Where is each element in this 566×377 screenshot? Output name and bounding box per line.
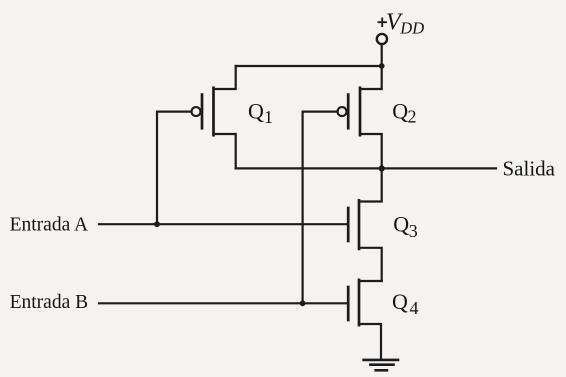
- svg-text:DD: DD: [399, 19, 424, 38]
- svg-text:Salida: Salida: [503, 156, 556, 180]
- svg-text:4: 4: [410, 298, 419, 318]
- svg-text:Entrada B: Entrada B: [10, 292, 89, 313]
- svg-text:Q: Q: [393, 211, 409, 236]
- svg-text:Q: Q: [392, 98, 408, 123]
- svg-text:1: 1: [264, 107, 273, 127]
- svg-text:Q: Q: [392, 289, 408, 314]
- svg-text:3: 3: [409, 221, 418, 241]
- svg-text:2: 2: [408, 106, 417, 126]
- svg-text:Entrada A: Entrada A: [10, 214, 89, 235]
- svg-text:Q: Q: [248, 98, 264, 123]
